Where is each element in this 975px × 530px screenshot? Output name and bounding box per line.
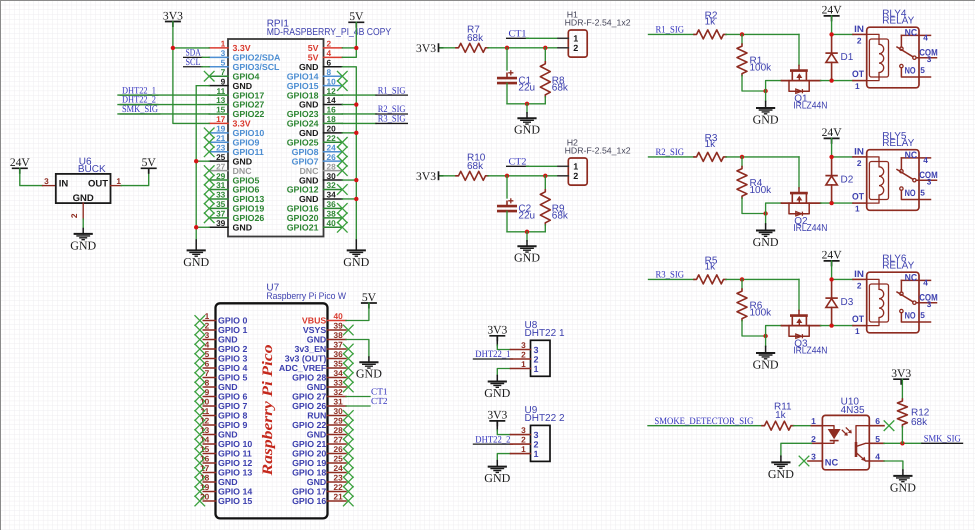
U9 pin stubs [511,434,531,436]
wire U6 OUT to 5V [121,168,149,185]
wire 24V to U6 pin 3 [20,168,43,185]
svg-text:HDR-F-2.54_1x2: HDR-F-2.54_1x2 [565,146,631,156]
relay RLY4 coil pins [853,33,867,35]
pin 27 GPIO 21 (U7 right) [328,443,347,445]
no-connect X pin 3 (U10) [799,456,810,467]
transistor Q3 IRLZ44N [782,316,821,339]
wire RPI1 right GND bus [342,67,356,240]
pin 11 GPIO 8 (U7 left) [203,415,215,417]
pin 32 GPIO 27 (U7 right) [328,396,347,398]
svg-text:GND: GND [753,357,779,371]
svg-text:31: 31 [334,396,344,406]
wire R7 to header H1 [488,47,558,49]
svg-text:SMOKE_DETECTOR_SIG: SMOKE_DETECTOR_SIG [654,416,753,427]
svg-text:GND: GND [753,235,779,249]
svg-text:GND: GND [218,430,238,440]
ground symbol (Q3) [765,336,767,346]
pin 14 GPIO 10 (U7 left) [203,443,215,445]
resistor R5 1k [694,275,726,284]
svg-text:2: 2 [521,350,526,360]
ground symbol right of U7 [368,357,370,362]
svg-text:GPIO 0: GPIO 0 [218,316,247,326]
junction source/ground [763,334,767,338]
wire 3V3 to U8 pin 3 [496,336,498,346]
svg-text:RELAY: RELAY [882,138,914,149]
wire GPIO 27 to CT1 [346,396,370,398]
ground symbol (Q2) [765,214,767,224]
junction 24V/diode [829,277,833,281]
svg-text:36: 36 [334,349,344,359]
pin 39 VSYS (U7 right) [328,329,347,331]
svg-text:6: 6 [875,416,880,426]
svg-text:24V: 24V [10,156,31,169]
junction GND bus pin 30 [354,178,358,182]
junction C branch [505,174,509,178]
svg-text:2: 2 [534,439,539,449]
resistor R2 1k [694,30,726,39]
pin 4 GPIO 2 (U7 left) [203,348,215,350]
relay RLY5 coil pins [853,156,867,158]
svg-text:1: 1 [811,416,816,426]
wire GPIO 26 to CT2 [346,405,370,407]
pin 2 5V (RPI1 right) [324,47,343,49]
svg-text:1k: 1k [705,17,717,28]
pin 1 3.3V (RPI1 left) [209,47,228,49]
svg-text:4N35: 4N35 [841,405,865,416]
resistor R11 1k [762,421,794,430]
junction pin5/R12 [900,441,904,445]
svg-text:2: 2 [534,354,539,364]
relay RLY4 RELAY body [867,27,919,88]
wire SDA to pin 3 [202,56,209,58]
pin 25 GPIO 19 (U7 right) [328,462,347,464]
svg-text:2: 2 [811,434,816,444]
svg-text:Raspberry Pi Pico: Raspberry Pi Pico [260,345,276,477]
ground symbol (U10 pin 2) [780,456,782,462]
wire SMOKE_DETECTOR_SIG to R11 [648,425,763,427]
svg-text:1: 1 [855,326,860,336]
svg-text:2: 2 [857,36,862,46]
svg-text:40: 40 [327,218,337,228]
pin 23 GPIO11 (RPI1 left) [209,151,228,153]
junction 24V/diode [829,155,833,159]
svg-text:1: 1 [534,449,539,459]
pin 35 GPIO19 (RPI1 left) [209,207,228,209]
svg-text:GND: GND [484,471,510,485]
svg-text:BUCK: BUCK [78,164,106,175]
svg-text:D1: D1 [841,52,854,63]
pin 5 GPIO3/SCL (RPI1 left) [209,66,228,68]
pin 23 GND (U7 right) [328,481,347,483]
wire U10 pin 2 to ground [781,443,812,456]
U10 pin stubs [811,425,822,427]
svg-text:OT: OT [852,314,864,324]
svg-text:24V: 24V [822,249,843,262]
ground symbol below U6 [82,229,84,234]
svg-text:VSYS: VSYS [303,325,327,335]
wire DHT22_2 to pin 13 [118,104,209,106]
svg-text:GND: GND [233,222,253,232]
svg-text:30: 30 [334,406,344,416]
resistor R8 68k [544,48,546,62]
svg-text:35: 35 [334,358,344,368]
ground symbol below RPI1 left [195,240,197,250]
wire 3V3 to R10 [440,175,456,177]
svg-text:40: 40 [334,311,344,321]
pin 24 GPIO8 (RPI1 right) [324,151,343,153]
wire 24V to relay RLY4 IN [831,16,833,35]
svg-text:3V3: 3V3 [487,409,507,422]
wire R12 to pin 5 node [901,427,903,444]
pin 28 GND (U7 right) [328,434,347,436]
svg-text:5: 5 [875,434,880,444]
pin 13 GPIO27 (RPI1 left) [209,104,228,106]
pin 10 GPIO15 (RPI1 right) [324,85,343,87]
svg-text:GND: GND [768,467,794,481]
svg-text:1: 1 [573,162,578,172]
U8 pin stubs [511,349,531,351]
svg-text:GND: GND [343,255,369,269]
wire R2_SIG to R3 [649,156,695,158]
svg-text:3V3: 3V3 [891,367,911,380]
pin 33 GND (U7 right) [328,386,347,388]
svg-text:NC: NC [825,457,839,467]
ground symbol (Q1) [765,91,767,101]
junction GND branch [525,230,529,234]
svg-text:OUT: OUT [88,179,108,190]
svg-text:GPIO 21: GPIO 21 [292,439,326,449]
svg-text:ADC_VREF: ADC_VREF [279,363,327,373]
svg-text:1: 1 [205,311,210,321]
svg-text:5: 5 [920,65,925,75]
wire 5V to RPI1 pins 2 and 4 [342,22,356,57]
capacitor C2 22u [506,176,508,198]
svg-text:GPIO 3: GPIO 3 [218,354,247,364]
svg-text:34: 34 [334,368,344,378]
pin 33 GPIO13 (RPI1 left) [209,198,228,200]
junction C branch [505,46,509,50]
svg-text:2: 2 [573,171,578,181]
svg-text:3: 3 [927,299,932,309]
svg-text:3v3 (OUT): 3v3 (OUT) [285,354,327,364]
svg-text:68k: 68k [552,83,569,94]
resistor R4 100k [741,157,743,167]
relay RLY5 contacts [897,158,937,200]
svg-text:3V3: 3V3 [416,42,436,55]
svg-text:OT: OT [852,69,864,79]
resistor R7 68k [456,43,488,52]
junction 3V3/pin1 [171,46,175,50]
svg-text:5: 5 [920,310,925,320]
junction source/ground [763,211,767,215]
pin 38 GPIO20 (RPI1 right) [324,217,343,219]
pin 2 GPIO 1 (U7 left) [203,329,215,331]
header H1 HDR-F-2.54_1x2 [568,30,587,57]
svg-text:GND: GND [307,430,327,440]
svg-text:4: 4 [923,155,928,165]
svg-text:GND: GND [70,238,96,252]
svg-text:100k: 100k [750,307,773,318]
wire cap/resistor bottom [507,103,545,105]
pin 3 GPIO2/SDA (RPI1 left) [209,56,228,58]
svg-text:3: 3 [521,425,526,435]
svg-text:21: 21 [334,491,344,501]
svg-text:9: 9 [205,387,210,397]
pin 30 RUN (U7 right) [328,415,347,417]
svg-text:3: 3 [521,340,526,350]
pin 19 GPIO 14 (U7 left) [203,491,215,493]
svg-text:GND: GND [753,112,779,126]
pin 22 GPIO 17 (U7 right) [328,491,347,493]
pin 7 GPIO 5 (U7 left) [203,377,215,379]
pin 26 GPIO 20 (U7 right) [328,453,347,455]
svg-text:IRLZ44N: IRLZ44N [793,223,827,234]
relay RLY6 RELAY body [867,272,919,333]
svg-text:GPIO 10: GPIO 10 [218,439,252,449]
svg-text:4: 4 [923,278,928,288]
svg-text:2: 2 [521,435,526,445]
ground symbol (U8) [496,376,498,382]
wire 3V3 to R7 [440,47,456,49]
pin 27 DNC (RPI1 left) [209,170,228,172]
svg-text:3: 3 [205,330,210,340]
svg-text:VBUS: VBUS [302,316,327,326]
svg-text:3: 3 [534,430,539,440]
wire DHT22_1 to pin 11 [118,94,209,96]
svg-text:GPIO 20: GPIO 20 [292,449,326,459]
junction GND bus pin 39 [194,225,198,229]
IC RPI1 MD-RASPBERRY_PI_4B COPY header outline [228,39,324,237]
pin 37 GPIO26 (RPI1 left) [209,217,228,219]
junction gate divider [740,155,744,159]
junction GND bus pin 14 [354,102,358,106]
svg-text:68k: 68k [467,161,484,172]
junction GND bus pin 20 [354,131,358,135]
pin 9 GPIO 6 (U7 left) [203,396,215,398]
svg-text:CT2: CT2 [371,397,388,407]
wire R5 to gate node [726,278,799,280]
svg-text:GPIO 22: GPIO 22 [292,420,326,430]
svg-text:GND: GND [218,477,238,487]
svg-text:5: 5 [205,349,210,359]
svg-text:25: 25 [334,453,344,463]
U6 pin 3 stub [43,185,56,187]
svg-text:28: 28 [334,425,344,435]
connector U9 DHT22 2 [531,425,551,461]
junction 24V/diode [829,32,833,36]
pin 9 GND (RPI1 left) [209,85,228,87]
wire SMK_SIG to pin 15 [118,113,209,115]
wire R3 to gate node [726,156,799,158]
header H2 HDR-F-2.54_1x2 [568,158,587,185]
pin 13 GND (U7 left) [203,434,215,436]
svg-text:NC: NC [905,150,918,160]
svg-text:3: 3 [534,345,539,355]
svg-text:MD-RASPBERRY_PI_4B COPY: MD-RASPBERRY_PI_4B COPY [267,27,392,38]
pin 34 GND (RPI1 right) [324,198,343,200]
svg-text:GPIO 2: GPIO 2 [218,344,247,354]
pin 6 GND (RPI1 right) [324,66,343,68]
H2 pin stubs [558,165,568,167]
wire gate down to Q2 [798,157,800,188]
pin 31 GPIO6 (RPI1 left) [209,189,228,191]
wire R1_SIG to R2 [649,33,695,35]
svg-text:GPIO 16: GPIO 16 [292,496,326,506]
svg-text:4: 4 [875,452,880,462]
svg-text:GND: GND [356,367,382,381]
wire R10 to header H2 [488,175,558,177]
svg-text:1: 1 [534,364,539,374]
pin 37 3v3_EN (U7 right) [328,348,347,350]
voltage regulator U6 BUCK [56,174,111,203]
svg-text:1: 1 [521,444,526,454]
svg-text:GND: GND [218,335,238,345]
pin 5 GPIO 3 (U7 left) [203,358,215,360]
relay RLY6 coil pins [853,278,867,280]
svg-text:8: 8 [205,377,210,387]
pin 38 GND (U7 right) [328,339,347,341]
svg-text:3v3_EN: 3v3_EN [295,344,327,354]
ground symbol (U10 pin 4) [902,470,904,476]
svg-text:IN: IN [854,269,864,279]
wire U10 pin 5 to SMK_SIG [884,442,922,444]
pin 18 GPIO24 (RPI1 right) [324,122,343,124]
wire U6 GND pin to ground [82,219,84,229]
pin 39 GND (RPI1 left) [209,226,228,228]
svg-text:IRLZ44N: IRLZ44N [793,101,827,112]
svg-text:GND: GND [514,123,540,137]
resistor R12 68k [897,399,907,427]
svg-text:GND: GND [183,255,209,269]
svg-text:GND: GND [890,480,916,494]
pin 18 GND (U7 left) [203,481,215,483]
junction OT/diode [829,323,833,327]
pin 20 GPIO 15 (U7 left) [203,500,215,502]
wire U9 pin 1 to ground [497,454,510,461]
svg-text:5V: 5V [349,10,364,23]
svg-text:NO: NO [905,188,916,198]
wire SCL to pin 5 [202,66,209,68]
pin 11 GPIO17 (RPI1 left) [209,94,228,96]
wire gate down to Q3 [798,279,800,310]
wire 3V3 to R12 [901,379,903,399]
svg-text:2: 2 [573,43,578,53]
svg-text:GND: GND [307,335,327,345]
pin 14 GND (RPI1 right) [324,104,343,106]
svg-text:27: 27 [334,434,344,444]
svg-text:RELAY: RELAY [882,16,914,27]
junction OT/diode [829,78,833,82]
transistor Q2 IRLZ44N [782,193,821,216]
wire CT1 to H1 pin 1 [527,37,559,39]
U6 pin 1 stub [111,185,122,187]
pin 4 5V (RPI1 right) [324,56,343,58]
ground symbol below RPI1 right [355,240,357,250]
svg-text:68k: 68k [911,417,928,428]
svg-text:1: 1 [855,81,860,91]
pin 30 GND (RPI1 right) [324,179,343,181]
wire 3V3 to U9 pin 3 [496,421,498,431]
svg-text:GPIO 9: GPIO 9 [218,420,247,430]
junction gate divider [740,32,744,36]
svg-text:3: 3 [927,176,932,186]
svg-text:2: 2 [857,158,862,168]
pin 29 GPIO5 (RPI1 left) [209,179,228,181]
svg-text:1k: 1k [705,262,717,273]
svg-text:Raspberry Pi Pico W: Raspberry Pi Pico W [266,291,346,302]
resistor R3 1k [694,152,726,161]
svg-text:6: 6 [205,358,210,368]
pin 35 ADC_VREF (U7 right) [328,367,347,369]
svg-text:1: 1 [116,176,121,186]
svg-text:GPIO 12: GPIO 12 [218,458,252,468]
wire VBUS to 5V [346,303,369,321]
wire RPI1 left GND bus [196,85,209,87]
ground symbol (H1 section) [526,113,528,119]
wire R3_SIG from pin 18 [342,122,376,124]
U6 pin 2 stub [82,203,84,219]
resistor R10 68k [456,171,488,180]
svg-text:GND: GND [307,382,327,392]
svg-text:NC: NC [905,273,918,283]
pin 21 GPIO 16 (U7 right) [328,500,347,502]
svg-text:NO: NO [905,310,916,320]
relay RLY4 contacts [897,35,937,77]
resistor R6 100k [741,279,743,289]
svg-text:GPIO 5: GPIO 5 [218,373,247,383]
pin 20 GND (RPI1 right) [324,132,343,134]
svg-text:GND: GND [307,477,327,487]
no-connect X pin 6 (U10) [884,420,895,431]
svg-text:NO: NO [905,65,916,75]
junction GND branch [525,102,529,106]
svg-text:3V3: 3V3 [487,324,507,337]
connector U8 DHT22 1 [531,340,551,376]
pin 24 GPIO 18 (U7 right) [328,472,347,474]
junction 5V/pin2 [354,46,358,50]
transistor Q1 IRLZ44N [782,71,821,94]
svg-text:3: 3 [44,176,49,186]
flyback diode D3 [831,281,833,298]
svg-text:GPIO 6: GPIO 6 [218,392,247,402]
svg-text:RELAY: RELAY [882,261,914,272]
wire drain of Q1 to relay OT [821,80,854,82]
wire U7 GND pin 38 to ground [346,340,369,358]
svg-text:5V: 5V [142,156,157,169]
pin 15 GPIO 11 (U7 left) [203,453,215,455]
wire to ground (H1 section) [526,104,528,113]
svg-text:GPIO 19: GPIO 19 [292,458,326,468]
pin 21 GPIO9 (RPI1 left) [209,141,228,143]
svg-text:4: 4 [923,33,928,43]
svg-text:D2: D2 [841,175,854,186]
svg-text:2: 2 [857,281,862,291]
junction GND bus pin 34 [354,197,358,201]
svg-text:24V: 24V [822,4,843,17]
svg-text:39: 39 [334,320,344,330]
svg-text:22: 22 [334,482,344,492]
svg-text:3: 3 [811,452,816,462]
svg-text:22u: 22u [518,83,535,94]
svg-text:IRLZ44N: IRLZ44N [793,346,827,357]
svg-text:39: 39 [216,218,226,228]
svg-text:GPIO 7: GPIO 7 [218,401,247,411]
svg-text:GPIO 1: GPIO 1 [218,325,247,335]
junction GND bus pin 25 [194,159,198,163]
svg-text:3V3: 3V3 [163,9,183,22]
wire source of Q1 to ground [766,81,782,91]
pin 19 GPIO10 (RPI1 left) [209,132,228,134]
